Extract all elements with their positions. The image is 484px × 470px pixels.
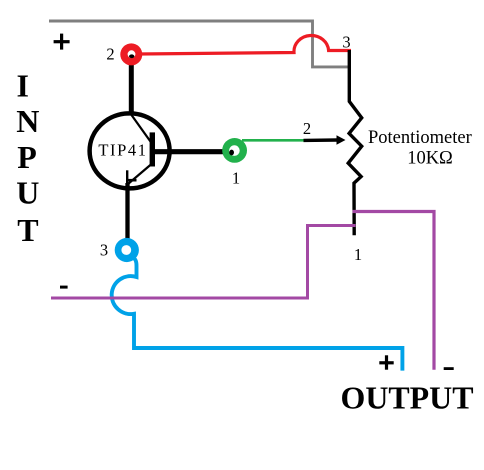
svg-text:P: P xyxy=(17,139,37,175)
svg-text:TIP41: TIP41 xyxy=(98,141,147,160)
svg-text:2: 2 xyxy=(106,45,114,64)
svg-text:1: 1 xyxy=(232,169,240,188)
svg-text:10KΩ: 10KΩ xyxy=(407,149,453,169)
svg-text:N: N xyxy=(16,103,39,139)
svg-text:3: 3 xyxy=(100,241,108,260)
svg-text:3: 3 xyxy=(342,33,350,52)
svg-text:U: U xyxy=(16,175,39,211)
svg-text:1: 1 xyxy=(354,245,362,264)
svg-text:T: T xyxy=(17,212,38,248)
svg-text:I: I xyxy=(17,67,29,103)
svg-text:2: 2 xyxy=(303,119,311,138)
svg-text:Potentiometer: Potentiometer xyxy=(368,128,472,148)
svg-text:OUTPUT: OUTPUT xyxy=(341,381,474,416)
